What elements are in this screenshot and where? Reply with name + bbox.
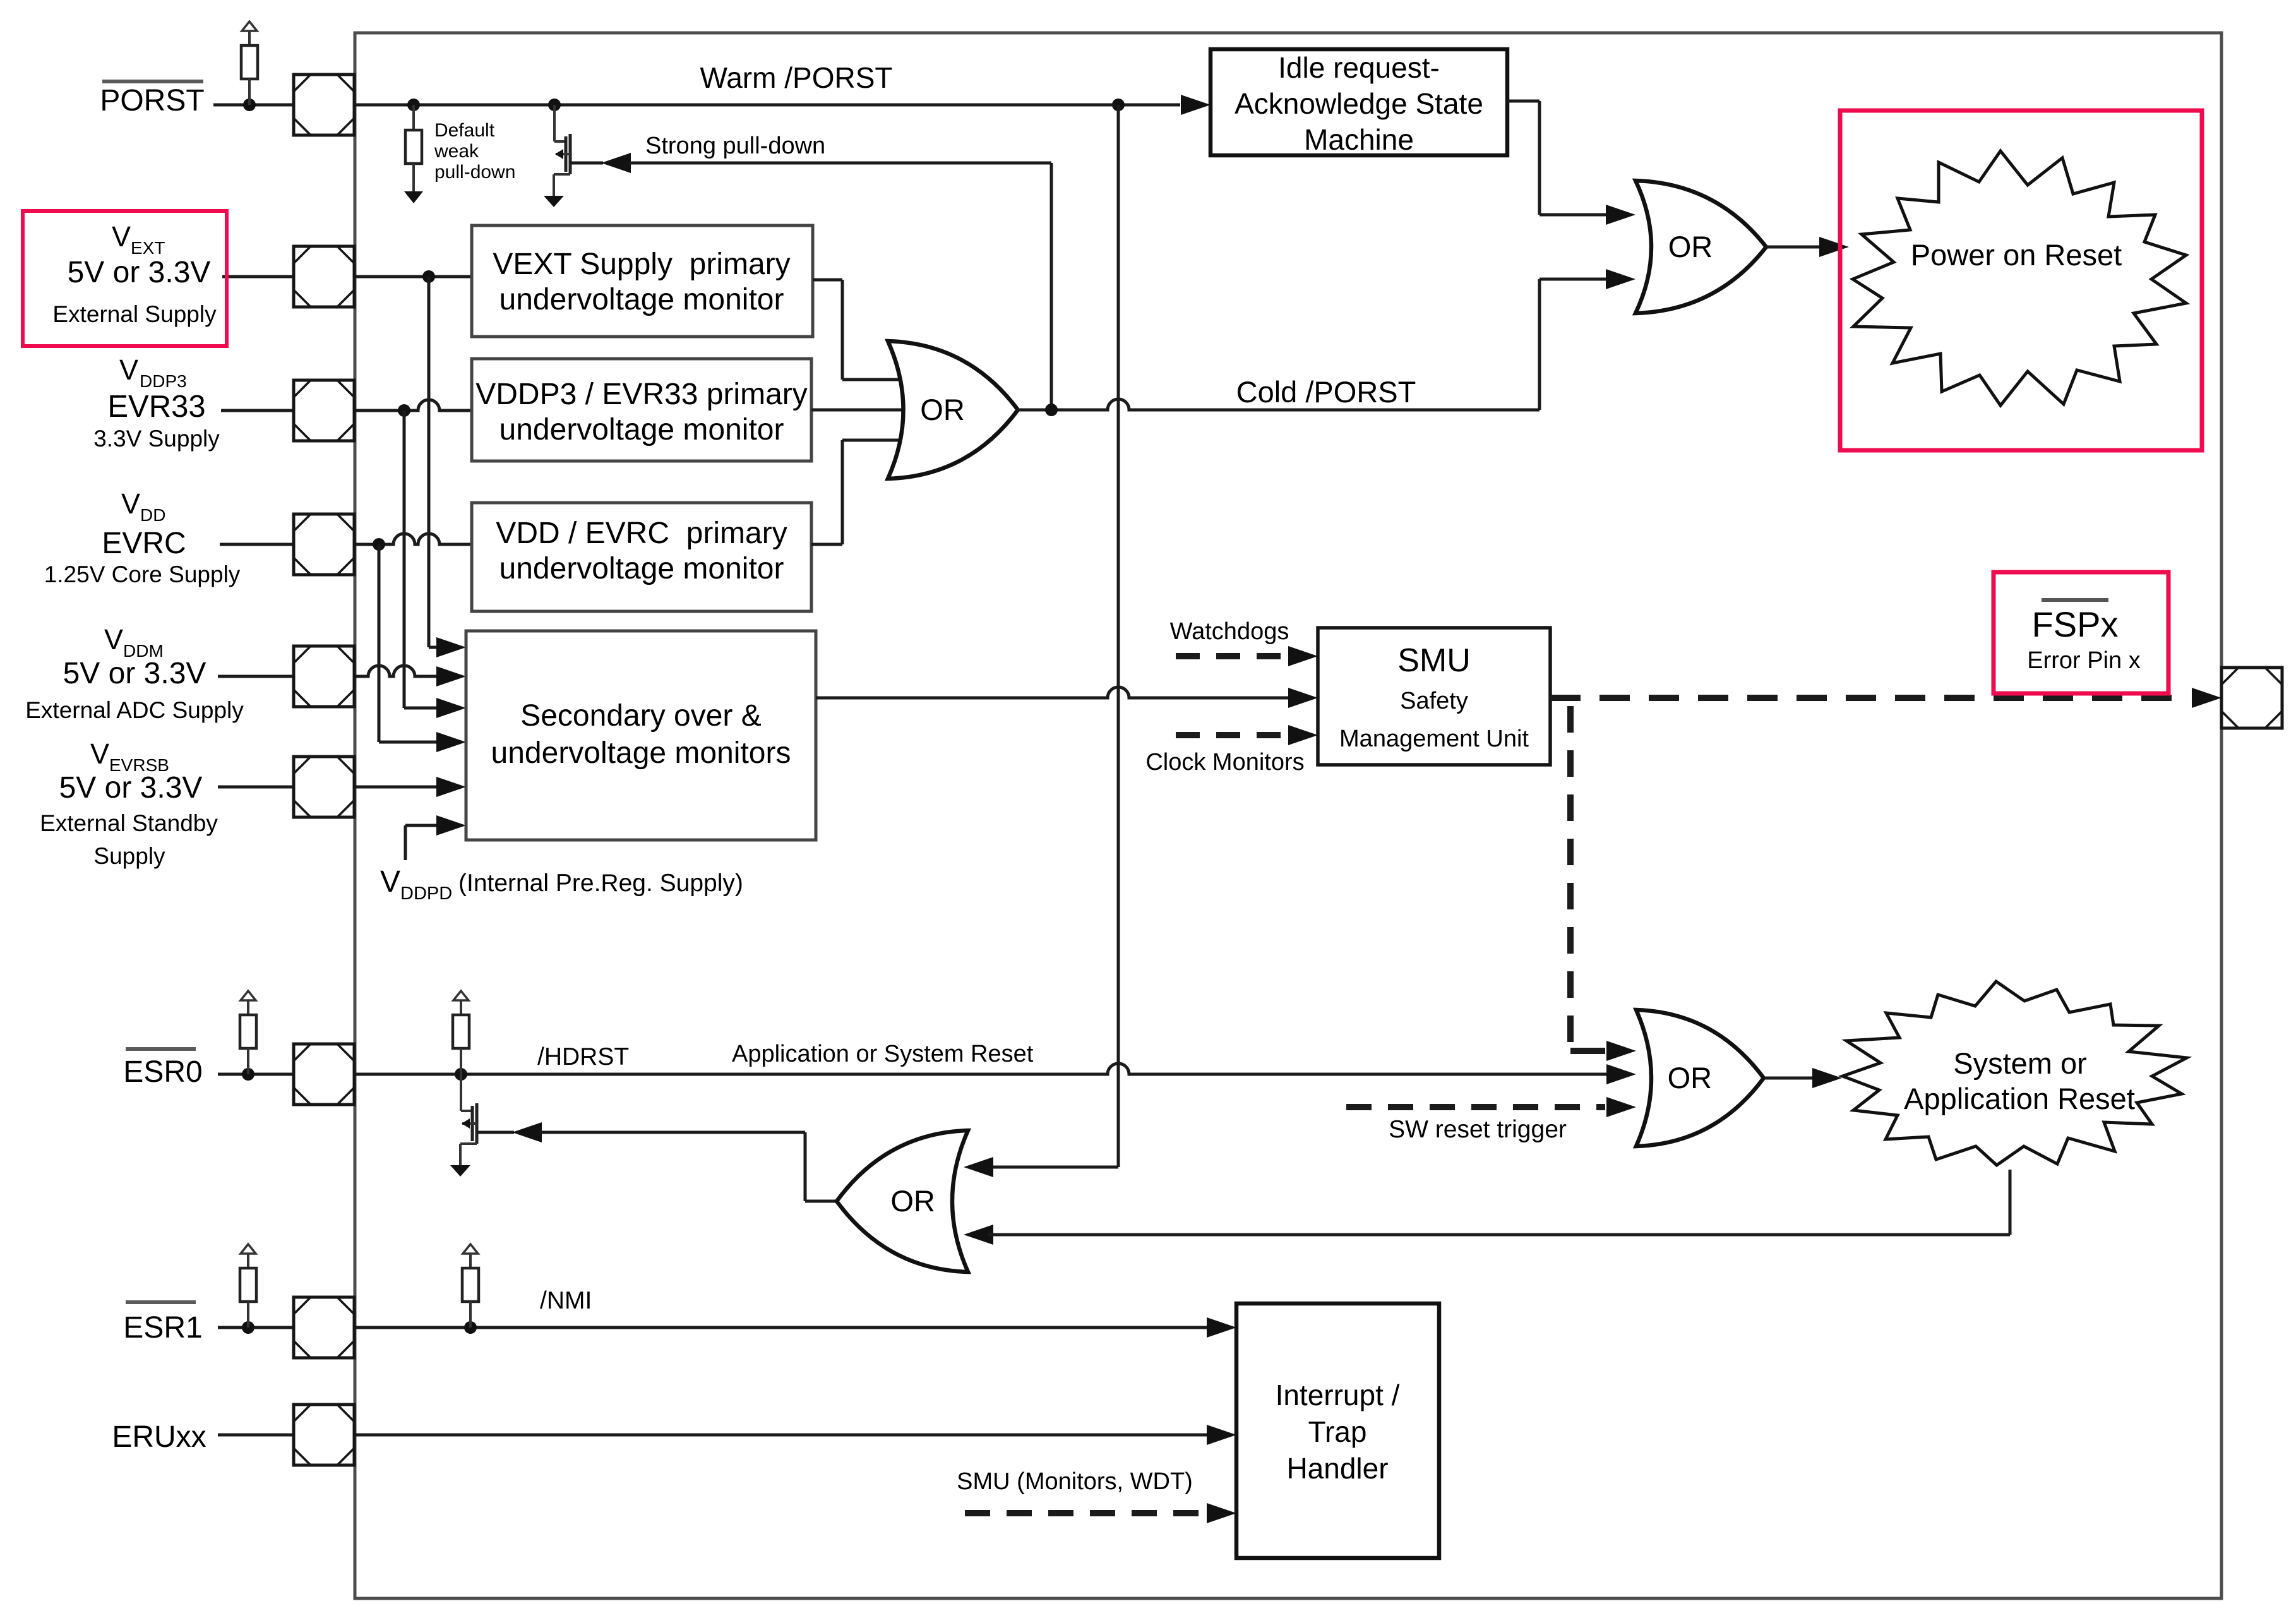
svg-text:5V or 3.3V: 5V or 3.3V <box>59 771 203 805</box>
svg-text:ESR0: ESR0 <box>123 1055 202 1089</box>
svg-text:/NMI: /NMI <box>540 1287 592 1314</box>
svg-text:undervoltage monitor: undervoltage monitor <box>499 413 784 446</box>
svg-text:PORST: PORST <box>100 84 204 117</box>
svg-text:External Supply: External Supply <box>52 301 217 327</box>
svg-text:1.25V Core Supply: 1.25V Core Supply <box>44 561 241 587</box>
svg-text:Trap: Trap <box>1308 1415 1367 1448</box>
svg-text:V: V <box>121 488 140 520</box>
svg-text:V: V <box>119 354 138 386</box>
svg-text:SMU: SMU <box>1397 642 1471 679</box>
svg-text:undervoltage monitor: undervoltage monitor <box>499 283 784 316</box>
svg-text:External ADC Supply: External ADC Supply <box>25 697 244 723</box>
svg-text:OR: OR <box>1668 1061 1713 1094</box>
svg-text:Power on Reset: Power on Reset <box>1911 238 2122 272</box>
svg-text:Watchdogs: Watchdogs <box>1170 618 1289 645</box>
svg-text:FSPx: FSPx <box>2032 604 2119 644</box>
svg-text:Safety: Safety <box>1400 688 1468 714</box>
svg-text:Management Unit: Management Unit <box>1339 726 1529 752</box>
svg-text:undervoltage monitors: undervoltage monitors <box>491 736 791 770</box>
svg-text:ESR1: ESR1 <box>123 1311 202 1345</box>
svg-text:Secondary over &: Secondary over & <box>520 699 762 733</box>
svg-text:VEXT Supply primary: VEXT Supply primary <box>493 248 790 281</box>
svg-text:Acknowledge State: Acknowledge State <box>1235 87 1483 120</box>
svg-text:V: V <box>90 738 109 770</box>
svg-text:DD: DD <box>140 505 165 525</box>
svg-text:DDPD: DDPD <box>400 884 452 904</box>
svg-text:Default: Default <box>434 120 495 141</box>
svg-text:DDP3: DDP3 <box>140 371 187 391</box>
svg-text:Cold /PORST: Cold /PORST <box>1236 375 1416 409</box>
svg-text:Error Pin x: Error Pin x <box>2027 647 2140 674</box>
svg-text:VDDP3 / EVR33 primary: VDDP3 / EVR33 primary <box>475 378 808 411</box>
svg-text:SMU (Monitors, WDT): SMU (Monitors, WDT) <box>957 1468 1193 1495</box>
svg-text:weak: weak <box>434 141 479 162</box>
svg-text:SW reset trigger: SW reset trigger <box>1389 1116 1567 1143</box>
svg-text:Handler: Handler <box>1286 1452 1388 1485</box>
svg-text:Interrupt /: Interrupt / <box>1276 1379 1400 1411</box>
svg-text:OR: OR <box>1668 230 1713 263</box>
svg-text:Strong pull-down: Strong pull-down <box>645 133 825 159</box>
svg-text:5V or 3.3V: 5V or 3.3V <box>63 657 206 690</box>
svg-text:ERUxx: ERUxx <box>112 1420 206 1454</box>
svg-text:/HDRST: /HDRST <box>537 1043 629 1070</box>
svg-text:V: V <box>104 623 123 656</box>
svg-text:Warm /PORST: Warm /PORST <box>700 61 893 94</box>
svg-text:Idle request-: Idle request- <box>1278 51 1440 84</box>
svg-text:Application Reset: Application Reset <box>1904 1082 2135 1115</box>
svg-text:V: V <box>380 865 400 899</box>
svg-text:VDD / EVRC primary: VDD / EVRC primary <box>496 517 787 550</box>
svg-text:Application or System Reset: Application or System Reset <box>732 1041 1034 1067</box>
svg-text:Clock Monitors: Clock Monitors <box>1145 749 1304 776</box>
svg-text:EVR33: EVR33 <box>107 390 205 424</box>
svg-text:Machine: Machine <box>1304 123 1414 156</box>
svg-text:V: V <box>112 220 131 253</box>
svg-text:pull-down: pull-down <box>434 162 515 183</box>
svg-text:5V or 3.3V: 5V or 3.3V <box>68 256 211 289</box>
svg-text:Supply: Supply <box>93 843 165 869</box>
svg-text:(Internal Pre.Reg. Supply): (Internal Pre.Reg. Supply) <box>458 870 743 897</box>
svg-text:OR: OR <box>890 1184 935 1218</box>
svg-text:undervoltage monitor: undervoltage monitor <box>499 552 784 585</box>
svg-text:EXT: EXT <box>131 238 165 258</box>
svg-text:OR: OR <box>920 393 965 426</box>
svg-text:System or: System or <box>1953 1046 2087 1080</box>
svg-text:External Standby: External Standby <box>40 810 218 836</box>
svg-text:3.3V Supply: 3.3V Supply <box>93 426 220 452</box>
svg-text:EVRC: EVRC <box>102 527 186 560</box>
